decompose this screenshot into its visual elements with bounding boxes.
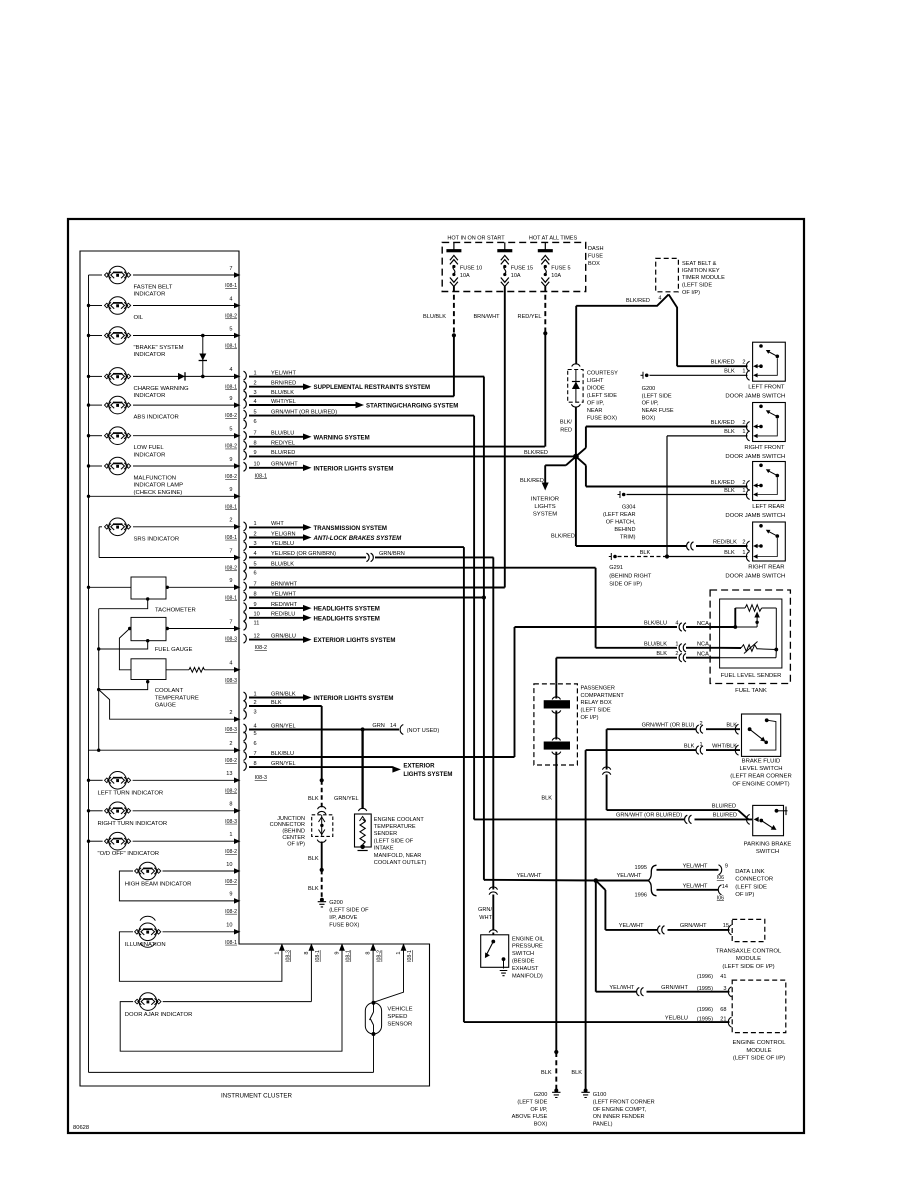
svg-text:BLK/BLU: BLK/BLU [271,751,294,757]
svg-text:FUSE 15: FUSE 15 [511,265,533,271]
svg-text:I08-2: I08-2 [225,879,237,885]
svg-text:BLU/BLK: BLU/BLK [271,390,294,396]
svg-text:BLK: BLK [656,651,667,657]
svg-text:NCA: NCA [697,621,709,627]
svg-text:YEL/RED (OR GRN/BRN): YEL/RED (OR GRN/BRN) [271,551,336,557]
bulb: ABS indicator [89,396,241,421]
svg-text:DOOR JAMB SWITCH: DOOR JAMB SWITCH [725,574,785,580]
svg-text:IGNITION KEY: IGNITION KEY [682,268,720,274]
svg-text:SENDER: SENDER [374,831,397,837]
connector I08-1 pin 10 GRN/WHT to interior lights [244,462,394,473]
svg-text:NCA: NCA [697,652,709,658]
svg-text:YEL/WHT: YEL/WHT [271,370,296,376]
svg-text:G291: G291 [609,565,623,571]
svg-text:5: 5 [254,562,257,568]
wire BLK junction connector to G200 [308,842,324,899]
ground G200 (near fuse box) and BLK wire to left front door pin 1 [641,369,748,422]
svg-text:I08-1: I08-1 [225,504,237,510]
svg-text:3: 3 [723,986,726,992]
wire GRN/YEL to coolant sender [334,730,367,812]
svg-text:PRESSURE: PRESSURE [512,944,543,950]
wire GRN/BRN vertical to oil pressure switch [492,557,494,889]
svg-text:10A: 10A [551,273,561,279]
wire BLU/BLK from fuse 10 [423,287,456,397]
svg-text:4: 4 [675,621,678,627]
svg-text:2: 2 [742,480,745,486]
svg-text:8: 8 [366,951,372,954]
svg-text:HEADLIGHTS SYSTEM: HEADLIGHTS SYSTEM [314,606,380,613]
svg-text:1: 1 [254,691,257,697]
svg-text:I08-2: I08-2 [225,314,237,320]
svg-text:I08-2: I08-2 [225,849,237,855]
svg-text:I08-1: I08-1 [225,384,237,390]
svg-text:9: 9 [335,951,341,954]
svg-text:I08-1: I08-1 [225,535,237,541]
svg-text:10A: 10A [460,273,470,279]
connector I08-1 pin 7 BLU/BLU to warning system [244,431,370,442]
svg-text:GRN/WHT: GRN/WHT [271,462,298,468]
svg-text:HOT AT ALL TIMES: HOT AT ALL TIMES [529,236,578,242]
connector I08-2 pin 5 BLU/BLK [244,562,596,572]
svg-text:(LEFT SIDE OF: (LEFT SIDE OF [374,838,414,844]
svg-text:I08-1: I08-1 [315,950,321,962]
engine coolant temperature sender [355,814,427,866]
svg-text:SPEED: SPEED [387,1014,407,1020]
wire BLK/RED from timer module pin 4 [576,294,677,366]
svg-text:RED: RED [560,428,572,434]
svg-text:RED/BLK: RED/BLK [713,540,737,546]
svg-text:BLK: BLK [308,856,319,862]
svg-text:GRN/BLU: GRN/BLU [271,633,296,639]
svg-text:BLK: BLK [571,1070,582,1076]
cluster bottom pin 1 (I08-3) [274,943,291,962]
svg-text:I/P, ABOVE: I/P, ABOVE [329,915,357,921]
labels right front door wires [711,420,746,435]
svg-text:ON INNER FENDER: ON INNER FENDER [593,1114,645,1120]
svg-text:I08-2: I08-2 [225,444,237,450]
bulb: brake system indicator [89,326,241,358]
svg-text:(LEFT SIDE OF: (LEFT SIDE OF [329,908,369,914]
svg-text:BLK: BLK [684,743,695,749]
passenger compartment relay box [534,684,624,765]
svg-text:I08-3: I08-3 [225,727,237,733]
wire BLU/RED branch (brake fluid to parking brake) [602,729,748,819]
svg-text:TRANSMISSION SYSTEM: TRANSMISSION SYSTEM [314,525,387,532]
wire YEL/BLU vertical to ECM [463,547,465,1022]
ground G304 and BLK wire to left rear door pin 1 [603,491,748,541]
bulb: charge warning indicator [89,367,241,399]
svg-text:I08-3: I08-3 [255,775,267,781]
svg-text:I08-2: I08-2 [225,788,237,794]
connector I08-3 pin 6 [244,741,257,751]
tachometer [89,577,241,614]
svg-text:ENGINE COOLANT: ENGINE COOLANT [374,817,425,823]
svg-text:COOLANT OUTLET): COOLANT OUTLET) [374,860,427,866]
svg-text:(1995): (1995) [697,1016,713,1022]
svg-text:FUSE BOX): FUSE BOX) [587,415,617,421]
svg-text:BLK: BLK [726,723,737,729]
cluster bottom pin 9 (I08-1) [335,943,352,962]
wire BLU/BLK to fuel sender [596,568,720,648]
svg-text:NEAR FUSE: NEAR FUSE [642,408,674,414]
svg-text:14: 14 [390,723,396,729]
connector I08-2 pin 8 YEL/WHT [244,591,487,601]
svg-text:DOOR JAMB SWITCH: DOOR JAMB SWITCH [725,394,785,400]
wire BLK from cluster to junction connector [308,706,324,809]
wire YEL/BLU to engine control module [464,1007,732,1027]
svg-text:1996: 1996 [635,892,647,898]
svg-text:WHT: WHT [271,521,284,527]
wire BLK/RED diode to junction [560,407,576,457]
svg-text:1: 1 [700,742,703,748]
connector I08-2 pin 12 GRN/BLU to exterior lights [244,633,396,644]
connector I08-2 pin 9 RED/WHT to headlights [244,602,380,613]
svg-text:68: 68 [720,1007,726,1013]
svg-text:I08-3: I08-3 [285,950,291,962]
svg-text:PASSENGER: PASSENGER [581,685,615,691]
svg-text:OF I/P): OF I/P) [735,892,754,898]
svg-text:EXTERIOR: EXTERIOR [403,762,435,769]
svg-text:MALFUNCTION: MALFUNCTION [134,476,177,482]
svg-text:(BESIDE: (BESIDE [512,959,535,965]
fuel level sender [720,599,782,668]
svg-text:BLK: BLK [640,550,651,556]
engine oil pressure switch [481,935,544,980]
wire BLK to G100 [571,750,585,1089]
connector I08-3 pin 4 GRN/YEL (not used tap) [244,723,440,735]
svg-text:9: 9 [229,487,232,493]
svg-text:1: 1 [254,370,257,376]
fuse FUSE 15 10A [497,242,533,286]
svg-text:OF I/P): OF I/P) [682,290,700,296]
connector I08-1 pin 9 BLU/RED to junction [244,450,574,460]
svg-text:G304: G304 [622,505,636,511]
svg-text:INDICATOR: INDICATOR [134,452,166,458]
svg-text:BLU/BLU: BLU/BLU [271,431,294,437]
svg-text:FUEL TANK: FUEL TANK [735,688,767,694]
svg-text:6: 6 [254,419,257,425]
svg-text:OF HATCH,: OF HATCH, [606,520,636,526]
svg-text:TACHOMETER: TACHOMETER [155,608,196,614]
bulb: O/D OFF indicator [89,832,241,857]
svg-text:RIGHT REAR: RIGHT REAR [748,565,784,571]
svg-text:GRN: GRN [372,723,384,729]
svg-text:BLU/RED: BLU/RED [271,450,295,456]
wire: illumination return loop to bottom pin [119,932,282,982]
wire: VSS ground return [373,1034,375,1072]
svg-text:1: 1 [274,951,280,954]
wire BLK brake fluid switch to G100 line [586,742,740,754]
wire: door ajar return loop [120,947,342,1051]
svg-text:(BEHIND: (BEHIND [282,829,305,835]
svg-text:1: 1 [742,429,745,435]
svg-text:3: 3 [254,710,257,716]
vehicle speed sensor [365,1001,412,1036]
svg-text:GAUGE: GAUGE [155,703,176,709]
svg-text:DIODE: DIODE [587,386,605,392]
svg-text:INDICATOR: INDICATOR [134,292,166,298]
bulb: left turn indicator [89,771,241,796]
bulb: oil indicator [89,296,241,321]
svg-text:BLK/RED: BLK/RED [626,298,650,304]
svg-text:I08-3: I08-3 [225,637,237,643]
wire RED/YEL from fuse 5 [518,287,548,447]
svg-text:FUEL GAUGE: FUEL GAUGE [155,647,193,653]
connector I08-2 pin 11 [244,621,260,631]
svg-text:I08-2: I08-2 [255,645,267,651]
parking brake switch [744,805,792,855]
svg-text:BRN/WHT: BRN/WHT [271,581,298,587]
cluster bottom pin 1 (I08-1) [396,943,413,962]
svg-text:SEAT BELT &: SEAT BELT & [682,261,717,267]
svg-text:SRS INDICATOR: SRS INDICATOR [134,536,180,542]
svg-text:1: 1 [254,521,257,527]
svg-text:FUSE BOX): FUSE BOX) [329,922,359,928]
svg-text:YEL/WHT: YEL/WHT [619,923,644,929]
svg-text:I08-2: I08-2 [225,909,237,915]
fuel tank [710,590,790,694]
svg-text:BLK: BLK [724,488,735,494]
svg-text:(LEFT REAR: (LEFT REAR [603,512,636,518]
svg-text:BLK/RED: BLK/RED [524,450,548,456]
svg-text:FUSE: FUSE [588,254,603,260]
seat belt & ignition key timer module [656,258,725,301]
svg-text:BLK: BLK [308,796,319,802]
svg-text:YEL/GRN: YEL/GRN [271,531,296,537]
svg-text:PANEL): PANEL) [593,1121,613,1127]
svg-text:YEL/BLU: YEL/BLU [271,541,294,547]
svg-text:OF I/P,: OF I/P, [530,1107,547,1113]
connector I08-1 pin 1 YEL/WHT [244,370,485,380]
svg-text:OF I/P,: OF I/P, [587,401,604,407]
svg-text:I08-2: I08-2 [225,758,237,764]
svg-text:(LEFT SIDE: (LEFT SIDE [642,393,672,399]
svg-text:2: 2 [700,721,703,727]
diode on charge warning row [178,372,185,380]
svg-text:LOW FUEL: LOW FUEL [134,445,165,451]
svg-text:I08-1: I08-1 [225,940,237,946]
svg-text:1: 1 [396,951,402,954]
svg-text:BLK: BLK [724,429,735,435]
connector I08-2 pin 2 YEL/GRN to anti-lock brakes [244,531,403,542]
wire: VSS feed pins [373,947,403,1003]
connector I08-2 pin 4 YEL/RED (OR GRN/BRN) [244,551,494,562]
svg-text:2: 2 [675,651,678,657]
svg-text:BLK/RED: BLK/RED [551,534,575,540]
svg-text:4: 4 [254,399,257,405]
wire: door ajar feed from bottom pin [310,947,312,1002]
connector I08-1 pin 2 BRN/RED to SRS [244,381,431,392]
svg-text:OF ENGINE COMPT): OF ENGINE COMPT) [732,781,789,787]
svg-text:G200: G200 [329,900,343,906]
wire BRN/WHT from fuse 18 [473,287,504,588]
svg-text:BRN/RED: BRN/RED [271,381,296,387]
svg-text:(CHECK ENGINE): (CHECK ENGINE) [134,490,183,496]
svg-text:FUSE 5: FUSE 5 [551,265,570,271]
wire YEL/WHT to transaxle control module [596,881,732,935]
right rear door jamb switch [725,522,785,580]
svg-text:(LEFT SIDE: (LEFT SIDE [517,1100,547,1106]
svg-text:(1995): (1995) [697,986,713,992]
svg-text:BOX: BOX [588,261,600,267]
svg-text:INDICATOR: INDICATOR [134,393,166,399]
wire: tachometer return [99,597,150,608]
wire GRN/WHT (OR BLU/RED) to parking brake switch [474,813,752,824]
svg-text:1: 1 [742,488,745,494]
svg-text:WHT: WHT [479,915,492,921]
svg-text:BLU/BLK: BLU/BLK [423,314,446,320]
svg-text:NEAR: NEAR [587,408,603,414]
connector I08-3 pin 5 [244,731,257,741]
svg-text:HIGH BEAM INDICATOR: HIGH BEAM INDICATOR [125,882,192,888]
right front door jamb switch [725,403,785,461]
svg-text:WHT/BLK: WHT/BLK [712,743,737,749]
svg-text:ABS INDICATOR: ABS INDICATOR [134,415,179,421]
left front door jamb switch [725,342,785,400]
svg-text:G100: G100 [593,1092,607,1098]
svg-text:YEL/WHT: YEL/WHT [617,873,642,879]
svg-text:2: 2 [229,741,232,747]
svg-text:6: 6 [254,741,257,747]
cluster bottom pin 8 (I08-1) [304,943,321,962]
svg-text:7: 7 [229,266,232,272]
border frame [68,219,804,1133]
svg-text:LEFT REAR: LEFT REAR [752,504,784,510]
svg-text:7: 7 [229,619,232,625]
svg-text:9: 9 [254,602,257,608]
svg-text:7: 7 [229,548,232,554]
svg-text:2: 2 [254,700,257,706]
svg-text:INTERIOR: INTERIOR [531,496,559,502]
svg-text:CHARGE WARNING: CHARGE WARNING [134,386,190,392]
svg-text:ANTI-LOCK BRAKES SYSTEM: ANTI-LOCK BRAKES SYSTEM [313,535,403,542]
svg-text:RIGHT FRONT: RIGHT FRONT [744,445,785,451]
svg-text:(LEFT SIDE: (LEFT SIDE [581,708,611,714]
wire: cluster ground bus 1 [87,275,374,1072]
svg-text:ABOVE FUSE: ABOVE FUSE [512,1114,548,1120]
svg-text:BRN/WHT: BRN/WHT [473,314,500,320]
svg-text:10: 10 [254,462,260,468]
svg-text:LEFT TURN INDICATOR: LEFT TURN INDICATOR [98,790,164,796]
svg-text:2: 2 [229,710,232,716]
svg-text:4: 4 [229,367,232,373]
svg-text:9: 9 [254,450,257,456]
bulb: SRS indicator [99,518,240,543]
svg-text:TRANSAXLE CONTROL: TRANSAXLE CONTROL [716,948,782,954]
svg-text:ENGINE OIL: ENGINE OIL [512,936,544,942]
svg-text:(LEFT SIDE: (LEFT SIDE [735,884,767,890]
svg-text:GRN/WHT (OR BLU/RED): GRN/WHT (OR BLU/RED) [271,409,337,415]
svg-text:SUPPLEMENTAL RESTRAINTS SYSTEM: SUPPLEMENTAL RESTRAINTS SYSTEM [314,384,431,391]
svg-text:YEL/WHT: YEL/WHT [683,863,708,869]
svg-text:YEL/WHT: YEL/WHT [271,591,296,597]
svg-text:9: 9 [229,457,232,463]
svg-text:RED/WHT: RED/WHT [271,602,298,608]
svg-text:I08-2: I08-2 [225,413,237,419]
svg-text:I08-1: I08-1 [225,344,237,350]
svg-text:"O/D OFF" INDICATOR: "O/D OFF" INDICATOR [98,851,160,857]
svg-text:YEL/WHT: YEL/WHT [683,883,708,889]
svg-text:1: 1 [675,641,678,647]
svg-text:CENTER: CENTER [282,835,305,841]
svg-text:10: 10 [226,862,232,868]
svg-text:YEL/WHT: YEL/WHT [517,873,542,879]
svg-text:11: 11 [254,621,260,627]
svg-text:I08-1: I08-1 [346,950,352,962]
svg-text:LIGHTS: LIGHTS [534,504,555,510]
connector I08-1 pin 6 [244,419,257,429]
svg-text:RED/YEL: RED/YEL [271,440,295,446]
svg-text:I06: I06 [717,875,724,881]
wire BLK right front door pin1 to G291 node [667,436,748,557]
svg-text:OF ENGINE COMPT,: OF ENGINE COMPT, [593,1107,647,1113]
connector I08-2 pin 1 WHT to transmission [244,521,387,532]
wire BLK/RED to left front door pin 2 [677,360,747,367]
wire GRN/WHT to oil pressure switch [478,887,497,935]
fuse FUSE 5 10A [538,242,571,286]
svg-text:9: 9 [725,864,728,870]
courtesy light diode [568,364,618,422]
svg-text:13: 13 [226,771,232,777]
svg-text:3: 3 [254,541,257,547]
svg-text:FUSE 10: FUSE 10 [460,265,482,271]
svg-text:BLU/RED: BLU/RED [712,803,736,809]
bulb: high beam indicator [125,862,241,888]
svg-text:21: 21 [720,1016,726,1022]
svg-text:DATA LINK: DATA LINK [735,869,764,875]
svg-text:NCA: NCA [697,642,709,648]
svg-text:GRN/YEL: GRN/YEL [271,723,296,729]
fuel sender wire labels and connectors [644,621,709,662]
svg-text:FUEL LEVEL SENDER: FUEL LEVEL SENDER [721,673,782,679]
wire: cluster bus 2 (gauge returns) [97,609,100,752]
connector I08-2 pin 3 YEL/BLU [244,541,464,551]
ground G291 and BLK wire to right rear door pin 1 [609,550,748,588]
ground G200 (left side of I/P above fuse box) [318,898,369,929]
svg-text:2: 2 [742,420,745,426]
wire GRN/WHT (OR BLU) to brake fluid switch [607,721,740,733]
resistor on coolant gauge row [166,661,241,684]
svg-text:OF I/P): OF I/P) [581,715,599,721]
svg-text:2: 2 [742,360,745,366]
fuel gauge [128,617,241,653]
svg-text:STARTING/CHARGING SYSTEM: STARTING/CHARGING SYSTEM [366,403,458,410]
svg-text:SYSTEM: SYSTEM [533,511,557,517]
transaxle control module [716,919,782,970]
svg-text:9: 9 [229,396,232,402]
svg-text:(LEFT SIDE OF I/P): (LEFT SIDE OF I/P) [722,964,774,970]
engine control module [732,980,786,1062]
svg-text:(LEFT FRONT CORNER: (LEFT FRONT CORNER [593,1100,655,1106]
svg-text:VEHICLE: VEHICLE [387,1007,412,1013]
svg-text:BLK/: BLK/ [560,420,573,426]
svg-text:BLK: BLK [541,1070,552,1076]
svg-text:WARNING SYSTEM: WARNING SYSTEM [314,434,370,441]
svg-text:TIMER MODULE: TIMER MODULE [682,275,725,281]
connector I08-3 pin 3 [244,710,257,720]
svg-text:GRN/BRN: GRN/BRN [379,551,405,557]
svg-text:1995: 1995 [635,865,647,871]
svg-text:FASTEN BELT: FASTEN BELT [134,285,173,291]
svg-text:1: 1 [742,550,745,556]
svg-text:ILLUMINATION: ILLUMINATION [125,942,166,948]
svg-text:9: 9 [229,892,232,898]
cluster bottom pin 8 (I08-2) [366,943,383,962]
svg-text:PARKING BRAKE: PARKING BRAKE [744,841,792,847]
svg-text:LEVEL SWITCH: LEVEL SWITCH [740,766,783,772]
connector I08-2 pin 6 [244,570,257,580]
svg-text:COURTESY: COURTESY [587,371,618,377]
